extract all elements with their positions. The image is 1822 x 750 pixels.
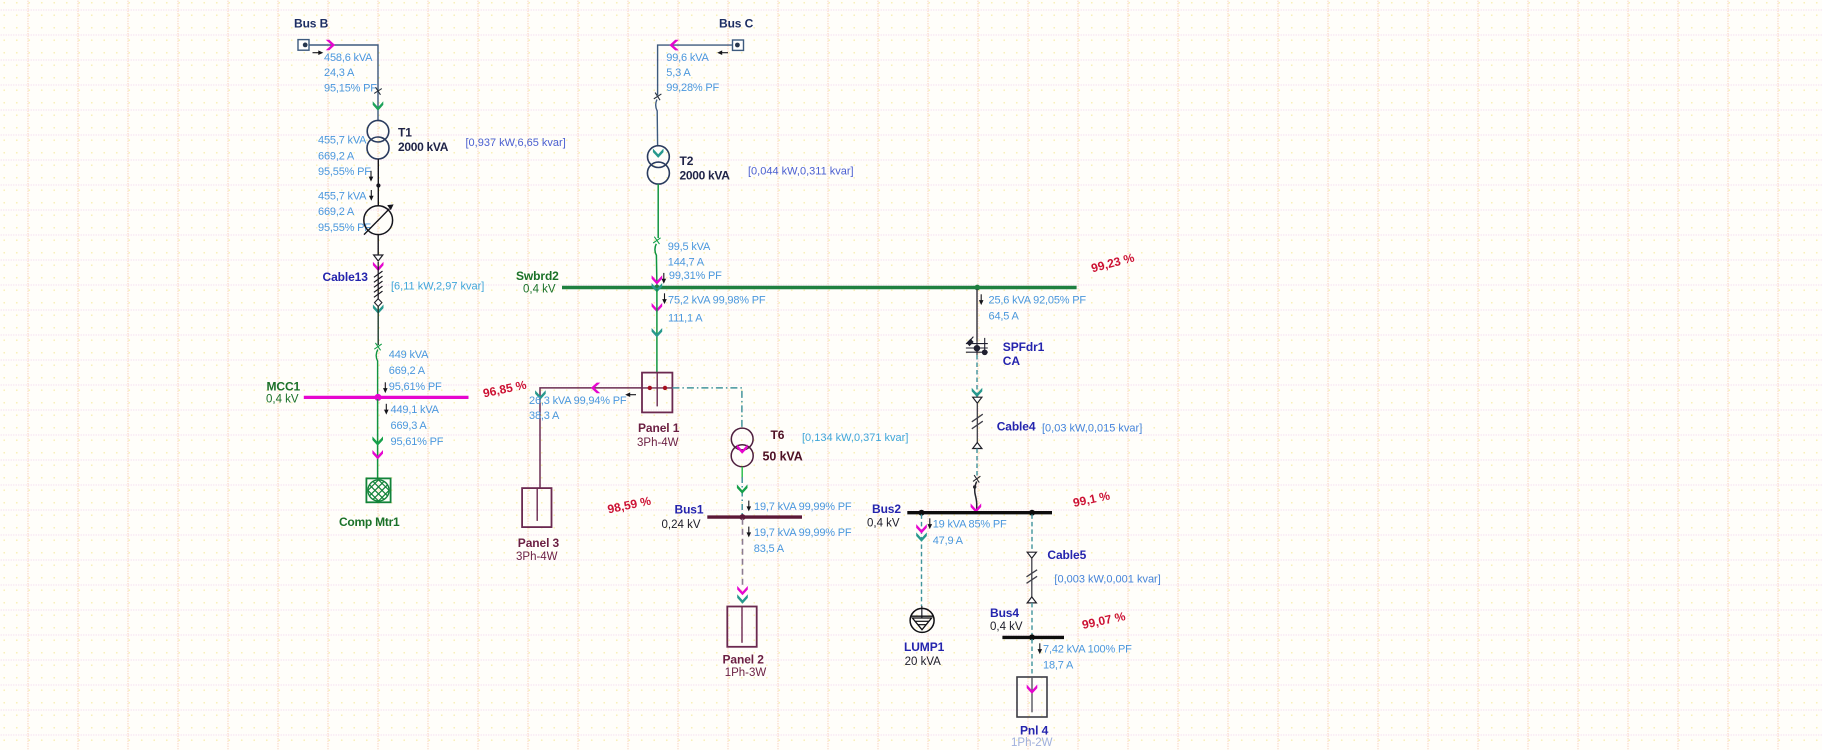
magenta flow arrow left (591, 383, 600, 394)
black x mark on wire (973, 475, 980, 482)
wire Bus1 to Panel 2 (dashed gray) (742, 519, 744, 585)
small black arrow down below Bus4 (1038, 643, 1043, 654)
magenta flow arrow below Bus2 (916, 524, 927, 533)
svg-text:144,7 A: 144,7 A (668, 256, 705, 268)
magenta flow arrow onto Bus2 (971, 503, 982, 512)
svg-text:111,1 A: 111,1 A (668, 312, 703, 324)
panel Pnl 4 (box) (1017, 677, 1047, 717)
svg-text:75,2 kVA 99,98% PF: 75,2 kVA 99,98% PF (668, 294, 766, 306)
svg-text:25,6 kVA 92,05% PF: 25,6 kVA 92,05% PF (989, 295, 1087, 307)
magenta flow arrow below Swbrd2 (652, 303, 663, 312)
magenta flow arrow above Panel 2 (737, 586, 748, 595)
green x mark (653, 237, 660, 244)
svg-text:99,31% PF: 99,31% PF (669, 270, 722, 282)
svg-text:26,3 kVA 99,94% PF: 26,3 kVA 99,94% PF (529, 395, 627, 407)
fuse-switch SPFdr1 symbol (966, 337, 988, 355)
wire T6 to Bus1 (741, 467, 743, 477)
bus Swbrd2 (green busbar) (562, 286, 1077, 290)
transformer T6 (two circles) (731, 428, 753, 467)
panel Panel 2 (box) (727, 607, 756, 647)
green flow arrow down (372, 436, 383, 445)
svg-text:3Ph-4W: 3Ph-4W (516, 551, 558, 563)
wire Cable13 to switch x (377, 307, 379, 346)
small black arrow down below Bus1 (747, 527, 752, 538)
junction dot on Bus1 (740, 514, 746, 520)
svg-text:99,6 kVA: 99,6 kVA (666, 52, 709, 64)
wire Swbrd2 to Panel 1 (656, 289, 658, 373)
wire Swbrd2 to SPFdr1 (976, 289, 978, 341)
svg-text:669,2 A: 669,2 A (318, 150, 355, 162)
svg-text:99,23 %: 99,23 % (1090, 250, 1136, 275)
svg-text:CA: CA (1003, 354, 1021, 368)
svg-text:20 kVA: 20 kVA (905, 656, 942, 668)
svg-text:[0,03 kW,0,015 kvar]: [0,03 kW,0,015 kvar] (1042, 422, 1142, 434)
svg-text:38,3 A: 38,3 A (529, 410, 560, 422)
junction dot on Bus4 (1029, 634, 1035, 640)
svg-text:98,59 %: 98,59 % (606, 494, 652, 517)
wire Cable5 to Bus4 (dashed teal) (1031, 603, 1033, 636)
svg-text:0,4 kV: 0,4 kV (990, 621, 1023, 633)
small black arrow down above Bus1 (747, 501, 752, 512)
magenta flow arrow inside T6 (737, 444, 748, 453)
svg-text:Bus B: Bus B (294, 17, 329, 31)
svg-text:18,7 A: 18,7 A (1043, 660, 1074, 672)
small black arrow down below Swbrd2 right junction (979, 294, 984, 305)
wire Bus4 to Pnl 4 (dashed teal) (1031, 639, 1033, 677)
svg-text:24,3 A: 24,3 A (324, 67, 355, 79)
svg-text:Cable5: Cable5 (1047, 548, 1086, 562)
svg-text:Panel 3: Panel 3 (518, 536, 560, 550)
transformer T1 (two circles) (367, 120, 389, 159)
junction dot Swbrd2 / SPFdr1 feeder (974, 285, 980, 291)
green switch jog (655, 244, 657, 285)
small black arrow down near 99,31% PF (662, 273, 667, 284)
svg-text:95,55% PF: 95,55% PF (318, 222, 371, 234)
wire breaker to Cable13 (377, 235, 379, 256)
svg-text:99,07 %: 99,07 % (1081, 609, 1127, 632)
svg-text:[0,134 kW,0,371 kvar]: [0,134 kW,0,371 kvar] (802, 432, 908, 444)
svg-text:5,3 A: 5,3 A (666, 67, 691, 79)
x mark on wire (654, 93, 662, 101)
svg-text:Bus4: Bus4 (990, 606, 1019, 620)
svg-text:T1: T1 (398, 125, 412, 139)
hollow triangle at Cable5 top (1027, 552, 1036, 558)
magenta flow arrow down into Cable13 (373, 262, 384, 271)
svg-text:95,61% PF: 95,61% PF (389, 381, 442, 393)
teal flow arrow inside T2 top (653, 149, 664, 158)
small black arrow down after 455,7 kVA (369, 190, 374, 201)
small black arrow down before 449,1 kVA (384, 404, 389, 415)
junction dot Swbrd2 / T2 feeder (654, 285, 660, 291)
svg-text:0,4 kV: 0,4 kV (867, 517, 900, 529)
small black arrow down below Bus2 (928, 518, 933, 529)
svg-text:99,28% PF: 99,28% PF (666, 82, 719, 94)
wire Panel 1 to T6 (dashed teal) (672, 388, 742, 428)
svg-text:50 kVA: 50 kVA (763, 450, 803, 464)
svg-text:T6: T6 (771, 428, 785, 442)
svg-text:[6,11 kW,2,97 kvar]: [6,11 kW,2,97 kvar] (391, 280, 484, 292)
connector to Bus C (square with dot) (733, 40, 744, 50)
bus Bus2 (black busbar) (907, 511, 1052, 514)
svg-text:0,4 kV: 0,4 kV (266, 394, 299, 406)
wire SPFdr1 to Cable4 (dashed teal) (976, 355, 978, 397)
svg-text:MCC1: MCC1 (267, 379, 301, 393)
svg-text:T2: T2 (680, 154, 694, 168)
motor Comp Mtr1 (square with hatched circle) (360, 461, 397, 519)
svg-text:SPFdr1: SPFdr1 (1003, 340, 1045, 354)
svg-text:7,42 kVA 100% PF: 7,42 kVA 100% PF (1043, 644, 1132, 656)
small black arrow down after 95,55% PF (369, 171, 374, 182)
svg-text:449,1 kVA: 449,1 kVA (391, 404, 440, 416)
teal flow arrow below Cable13 (373, 305, 384, 314)
bus Bus1 (dark maroon busbar) (707, 515, 802, 518)
teal flow arrow on Panel 1 feeder (652, 328, 663, 337)
svg-text:1Ph-3W: 1Ph-3W (725, 667, 767, 679)
transformer T2 (two circles) (647, 146, 669, 184)
small black arrow left (625, 392, 636, 397)
svg-text:0,4 kV: 0,4 kV (523, 283, 556, 295)
teal flow arrow down at corner (535, 390, 546, 399)
svg-text:Bus C: Bus C (719, 17, 754, 31)
magenta flow arrow down above Swbrd2 (652, 275, 663, 284)
wire Panel 1 to Panel 3 (left feeder) (540, 388, 642, 488)
svg-text:455,7 kVA: 455,7 kVA (318, 190, 367, 202)
svg-text:Comp Mtr1: Comp Mtr1 (339, 515, 400, 529)
wire Bus2 to Cable5 (dashed teal) (1031, 514, 1033, 552)
svg-text:[0,044 kW,0,311 kvar]: [0,044 kW,0,311 kvar] (748, 165, 854, 177)
bus MCC1 (magenta busbar) (304, 396, 469, 399)
magenta flow arrow down (372, 450, 383, 459)
svg-text:0,24 kV: 0,24 kV (662, 519, 701, 531)
switch jog on wire to T2 (656, 100, 658, 146)
junction dot Bus2 right (1029, 510, 1035, 516)
svg-text:83,5 A: 83,5 A (754, 543, 785, 555)
teal flow arrow at Swbrd2 (652, 283, 663, 292)
svg-text:Cable13: Cable13 (323, 270, 369, 284)
svg-text:96,85 %: 96,85 % (482, 378, 528, 401)
svg-text:19 kVA 85% PF: 19 kVA 85% PF (933, 519, 1007, 531)
wire MCC1 to Comp Mtr1 (377, 399, 379, 478)
svg-text:Panel 1: Panel 1 (638, 421, 680, 435)
switch jog above Bus2 (975, 482, 977, 512)
svg-text:2000 kVA: 2000 kVA (398, 140, 449, 154)
svg-text:Panel 2: Panel 2 (723, 653, 765, 667)
wire from Bus C connector to T2 (658, 45, 733, 95)
svg-text:LUMP1: LUMP1 (904, 640, 945, 654)
magenta flow arrow right on Bus B wire (326, 40, 335, 51)
green x mark on wire (374, 343, 381, 350)
svg-text:[0,003 kW,0,001 kvar]: [0,003 kW,0,001 kvar] (1054, 573, 1160, 585)
wire T2 to Swbrd2 (657, 184, 659, 238)
svg-text:95,61% PF: 95,61% PF (391, 436, 444, 448)
cable Cable5 symbol (line with slashes) (1027, 558, 1038, 597)
svg-text:3Ph-4W: 3Ph-4W (637, 437, 679, 449)
breaker/switch circle with arrow slash (364, 204, 394, 234)
hollow triangle at Cable4 top (973, 397, 982, 403)
svg-text:669,3 A: 669,3 A (391, 420, 428, 432)
junction dot on wire (376, 183, 380, 187)
svg-text:19,7 kVA 99,99% PF: 19,7 kVA 99,99% PF (754, 501, 852, 513)
teal flow arrow above Panel 2 (737, 594, 748, 603)
svg-text:Bus1: Bus1 (675, 503, 704, 517)
svg-text:95,15% PF: 95,15% PF (324, 83, 377, 95)
junction dot on MCC1 (375, 394, 382, 401)
svg-text:1Ph-2W: 1Ph-2W (1011, 737, 1053, 749)
green switch jog (376, 350, 378, 397)
svg-text:458,6 kVA: 458,6 kVA (324, 52, 373, 64)
load LUMP1 (circle with hatched triangle) (910, 606, 934, 632)
svg-text:99,5 kVA: 99,5 kVA (668, 241, 711, 253)
svg-text:Cable4: Cable4 (997, 420, 1036, 434)
panel Panel 1 (box with through-feeder and dots) (642, 373, 672, 413)
small black arrow right (458,6 kVA pointer) (313, 50, 324, 55)
junction dot Bus2 left (919, 510, 925, 516)
svg-text:669,2 A: 669,2 A (318, 206, 355, 218)
wire from Bus B connector to T1 (horizontal then vertical) (309, 45, 378, 120)
connector to Bus B (square with dot) (298, 40, 309, 51)
hollow triangle at Cable13 top (374, 255, 383, 261)
svg-text:64,5 A: 64,5 A (989, 310, 1020, 322)
wire Cable4 to Bus2 (dashed then jog) (976, 449, 978, 477)
panel Panel 3 (box) (522, 488, 551, 527)
teal flow arrow below Bus2 (916, 532, 927, 541)
svg-text:95,55% PF: 95,55% PF (318, 166, 371, 178)
svg-text:99,1 %: 99,1 % (1072, 488, 1112, 510)
bus Bus4 (black busbar) (1002, 636, 1064, 639)
small black arrow down before 95,61% PF (383, 382, 388, 393)
svg-text:47,9 A: 47,9 A (933, 535, 964, 547)
svg-text:455,7 kVA: 455,7 kVA (318, 135, 367, 147)
x mark on wire above T1 (374, 87, 382, 95)
cable Cable13 symbol (hatched run) (374, 262, 383, 305)
svg-text:[0,937 kW,6,65 kvar]: [0,937 kW,6,65 kvar] (466, 137, 566, 149)
svg-text:19,7 kVA 99,99% PF: 19,7 kVA 99,99% PF (754, 527, 852, 539)
magenta flow arrow inside Pnl 4 (1027, 685, 1038, 694)
wire T1 to breaker (377, 159, 379, 206)
svg-text:2000 kVA: 2000 kVA (680, 169, 731, 183)
svg-text:Pnl 4: Pnl 4 (1020, 724, 1049, 738)
hollow triangle up at Cable5 bottom (1027, 597, 1036, 603)
svg-text:Bus2: Bus2 (872, 502, 901, 516)
small black arrow left (99,6 kVA pointer) (717, 50, 728, 55)
magenta flow arrow left (669, 40, 678, 51)
hollow diamond at Cable13 bottom (375, 299, 382, 307)
cable Cable4 symbol (line with slashes) (972, 403, 983, 442)
wire Bus2 to LUMP1 (dashed teal) (921, 514, 923, 606)
green flow arrow down into T1 (373, 101, 384, 110)
small black arrow down below Swbrd2 (662, 293, 667, 304)
svg-text:Swbrd2: Swbrd2 (516, 269, 559, 283)
svg-text:449 kVA: 449 kVA (389, 349, 429, 361)
hollow triangle up at Cable4 bottom (973, 443, 982, 449)
green flow arrow on T6 secondary (737, 484, 748, 493)
svg-text:669,2 A: 669,2 A (389, 365, 426, 377)
teal flow arrow above Cable4 (972, 388, 983, 397)
